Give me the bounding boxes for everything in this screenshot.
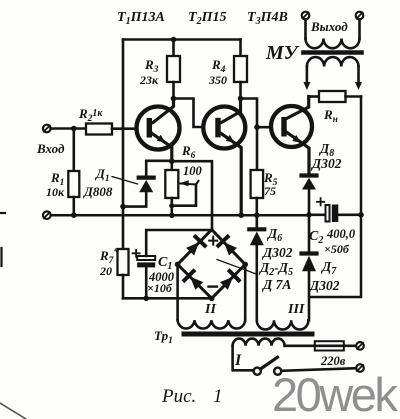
- svg-text:×50б: ×50б: [324, 242, 350, 256]
- scan artifact left edge tick: [0, 212, 5, 214]
- output terminal right: [356, 12, 364, 20]
- switch S1: [254, 357, 357, 375]
- svg-text:20: 20: [99, 264, 112, 278]
- output transformer core: [304, 50, 362, 55]
- fuse: [315, 341, 356, 350]
- output transformer primary winding with arrows: [307, 57, 359, 83]
- node top rail / R3 junction: [171, 37, 177, 43]
- node bridge left vertex: [175, 262, 181, 268]
- svg-text:Д302: Д302: [310, 156, 342, 171]
- svg-text:С2: С2: [309, 229, 323, 246]
- svg-text:100: 100: [183, 164, 203, 178]
- label T3 P4V: [247, 10, 288, 27]
- svg-text:23к: 23к: [139, 73, 159, 87]
- wire bridge right vertex to winding II: [244, 264, 247, 320]
- node bridge right vertex: [242, 262, 248, 268]
- diode D1 zener D808: [83, 161, 172, 207]
- resistor R7: [99, 246, 129, 298]
- input terminal lower: [43, 211, 51, 219]
- svg-text:Т3П4В: Т3П4В: [247, 10, 288, 27]
- node R1 bottom on rail: [71, 212, 77, 218]
- svg-text:Вход: Вход: [36, 141, 65, 156]
- bridge diode top-right: [218, 237, 237, 256]
- diode D6 D302: [249, 215, 292, 320]
- node R6 bottom on rail: [169, 213, 175, 219]
- label T2 P15: [188, 10, 226, 27]
- svg-text:×10б: ×10б: [147, 281, 173, 295]
- watermark 20wek: [272, 368, 398, 419]
- caption Ris. 1: [161, 386, 223, 407]
- svg-text:Тр1: Тр1: [154, 328, 173, 346]
- output transformer MU secondary winding: [306, 19, 360, 48]
- bridge plus sign: [209, 237, 217, 245]
- wire T1 collector to T2 base: [174, 99, 204, 128]
- leader line D2-D5: [217, 260, 258, 275]
- transformer Tr1 winding I primary: [233, 339, 315, 371]
- input terminal upper: [43, 125, 51, 133]
- svg-text:Т2П15: Т2П15: [188, 10, 226, 27]
- node C1 bottom junction: [143, 296, 149, 302]
- svg-text:Рис.1: Рис.1: [161, 386, 223, 407]
- svg-text:I: I: [234, 352, 242, 369]
- wire T2 collector to T3 base: [241, 99, 272, 128]
- svg-text:Д 7А: Д 7А: [261, 277, 291, 292]
- svg-text:Д6: Д6: [266, 226, 282, 244]
- node emitter/R6/D1 junction: [169, 158, 175, 164]
- svg-text:Выход: Выход: [310, 19, 348, 34]
- label winding I: [234, 352, 242, 369]
- transistor T3: [271, 97, 312, 174]
- resistor R2: [78, 106, 137, 135]
- mains terminal lower: [356, 364, 364, 372]
- label Vhod: [36, 141, 65, 156]
- node T2 collector junction: [238, 96, 244, 102]
- capacitor C1 electrolytic: [133, 230, 212, 298]
- bridge diode top-left: [186, 237, 205, 256]
- svg-text:III: III: [287, 302, 305, 317]
- transistor T2: [203, 99, 245, 216]
- bridge minus sign: [209, 285, 218, 287]
- output terminal left: [302, 12, 310, 20]
- svg-text:75: 75: [264, 184, 276, 198]
- wire right bus: [309, 97, 361, 298]
- wire top supply rail: [123, 38, 241, 41]
- svg-text:Rн: Rн: [323, 107, 338, 125]
- label Vyhod: [310, 19, 348, 34]
- node rail right end: [306, 212, 312, 218]
- resistor R4: [208, 40, 247, 99]
- svg-text:400,0: 400,0: [326, 227, 356, 241]
- mains terminal upper: [356, 342, 364, 350]
- resistor Rn: [309, 91, 361, 125]
- svg-text:Д302: Д302: [308, 278, 340, 293]
- svg-text:20wek: 20wek: [272, 368, 398, 419]
- transformer Tr1 core: [184, 332, 312, 337]
- bridge diode bottom-right: [220, 271, 239, 290]
- node T1 collector junction: [171, 96, 177, 102]
- svg-text:220в: 220в: [320, 354, 346, 368]
- svg-text:Д7: Д7: [320, 259, 337, 277]
- svg-text:МУ: МУ: [265, 42, 300, 64]
- label D2-D5 D7A with leader: [258, 260, 293, 292]
- label MU: [265, 42, 300, 64]
- svg-text:Д808: Д808: [83, 184, 113, 199]
- node R1 top junction: [71, 126, 77, 132]
- node D1 anode / bus junction: [120, 204, 126, 210]
- scan artifact left edge vertical: [0, 248, 2, 266]
- diode D8 D302: [302, 141, 342, 215]
- svg-text:R21к: R21к: [78, 106, 103, 124]
- wire common ground rail: [51, 214, 309, 217]
- wire bridge minus rail: [123, 297, 212, 300]
- svg-text:Т1П13А: Т1П13А: [117, 10, 165, 27]
- diode D7 D302: [302, 215, 340, 320]
- svg-text:10к: 10к: [46, 185, 65, 199]
- transistor T1: [137, 99, 180, 162]
- wire node to bridge plus: [172, 161, 212, 229]
- svg-text:350: 350: [208, 73, 227, 87]
- node R5/D6 on rail: [254, 212, 260, 218]
- label winding II: [204, 302, 216, 317]
- svg-text:Д1: Д1: [95, 166, 110, 184]
- capacitor C2 electrolytic: [309, 198, 361, 256]
- wire left supply bus: [122, 40, 125, 250]
- resistor R3: [139, 40, 180, 99]
- svg-text:Д2-Д5: Д2-Д5: [258, 260, 293, 278]
- scan artifact bottom-left diagonal: [0, 403, 26, 419]
- label Tr1: [154, 328, 173, 346]
- resistor R1: [46, 129, 79, 216]
- node T2 emitter on rail: [238, 212, 244, 218]
- transformer Tr1 winding III: [257, 320, 309, 329]
- potentiometer R6: [165, 143, 202, 215]
- resistor R5: [251, 127, 278, 227]
- svg-text:R6: R6: [181, 143, 196, 161]
- transformer Tr1 winding II: [178, 320, 246, 328]
- label T1 P13A: [117, 10, 165, 27]
- svg-text:II: II: [204, 302, 216, 317]
- label 220v: [320, 354, 346, 368]
- bridge rectifier D2-D5 diamond: [178, 230, 246, 299]
- node T3 base / R5 junction: [254, 124, 260, 130]
- label winding III: [287, 302, 305, 317]
- svg-text:Д302: Д302: [261, 245, 293, 260]
- wire bridge left vertex to winding II: [176, 264, 179, 320]
- node bridge bottom vertex: [209, 296, 215, 302]
- bridge diode bottom-left: [184, 271, 203, 290]
- node C2 right on bus: [358, 212, 364, 218]
- wire input to R2: [51, 127, 86, 130]
